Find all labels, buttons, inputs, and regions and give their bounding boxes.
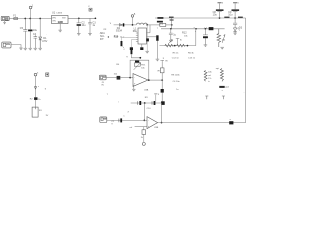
net flag box mid left <box>46 73 49 76</box>
ground under C11 <box>169 40 173 42</box>
wire feedback loop <box>130 60 149 80</box>
wire J4 to -input <box>107 119 147 121</box>
wire power flag stem <box>30 9 32 19</box>
svg-text:R5 1k: R5 1k <box>173 52 180 54</box>
wire vertical x162.2 <box>161 62 163 103</box>
resistor R3 box <box>160 23 166 26</box>
capacitor C2 polarized <box>77 18 81 33</box>
wire riser x195.8 to rail3 <box>195 29 197 46</box>
svg-text:1%: 1% <box>208 78 211 80</box>
pot arrow over R5 <box>168 40 172 44</box>
svg-text:C13 1n: C13 1n <box>188 58 196 60</box>
net flag VSW <box>89 8 92 11</box>
capacitor bold blob on x162.2 <box>161 89 164 93</box>
svg-text:R12: R12 <box>182 31 187 34</box>
svg-text:ref: ref <box>130 126 133 129</box>
net label bold on output <box>229 121 233 124</box>
pot arrow on R13 <box>222 35 225 43</box>
node junction x162.2 <box>161 79 163 81</box>
net flag top x162.2 <box>160 60 164 61</box>
svg-text:VIN: VIN <box>52 17 56 19</box>
resistor R4 bold <box>117 76 121 80</box>
node junction x30.25 <box>29 18 31 20</box>
node junction x147.2 <box>146 24 148 26</box>
svg-text:10u: 10u <box>81 24 86 27</box>
wire main input rail y18.5 <box>18 18 52 20</box>
wire R box to riser <box>166 24 172 26</box>
pad bold left <box>130 47 133 50</box>
capacitor C3 <box>88 18 92 33</box>
connector J3 <box>99 75 106 80</box>
testpoint circle <box>142 142 145 145</box>
capacitor C11 below rail3 <box>169 29 173 40</box>
net flag a bottom right <box>205 96 208 99</box>
svg-text:C4 10n: C4 10n <box>173 81 181 83</box>
node junction x148.8 output <box>148 79 150 81</box>
ground under C14 <box>204 45 208 47</box>
net label bold on rail right b <box>238 17 243 18</box>
wire bias x143.8 down <box>143 127 145 143</box>
LED D3 <box>233 28 236 33</box>
wire B1 stem <box>35 76 37 97</box>
rail3 y28.8 <box>161 28 225 30</box>
resistor R6 zigzag <box>177 44 186 47</box>
wire J2 to ground <box>11 45 21 48</box>
power port circle B1 <box>34 73 37 76</box>
capacitor C4 <box>34 35 38 48</box>
node junction U3B out <box>161 122 163 124</box>
arrow on stem <box>34 87 37 90</box>
power flag +VIN <box>29 6 32 9</box>
svg-text:SDA: SDA <box>100 32 105 35</box>
resistor R13 vertical zigzag <box>217 29 221 47</box>
capacitor C15 bar <box>121 41 123 46</box>
wire R4 to opamp <box>120 77 133 79</box>
node junction x171.7 <box>171 24 173 26</box>
net label bold VOUT <box>157 17 163 19</box>
svg-text:SS34: SS34 <box>116 29 123 32</box>
diode D2 <box>119 24 122 27</box>
ground under C5 <box>24 48 28 50</box>
node junction end x95.4 <box>95 17 97 19</box>
svg-text:GND: GND <box>58 22 63 24</box>
svg-text:10u: 10u <box>213 14 218 17</box>
wire U2 bottom pin <box>141 44 143 47</box>
ground under D3 <box>233 33 237 35</box>
resistor R15 vertical zigzag <box>220 69 223 82</box>
capacitor C5 <box>23 19 27 49</box>
power bar above C9 <box>233 2 237 4</box>
capacitor bold on x147.2 <box>146 38 149 41</box>
capacitor C9 polarized <box>233 3 238 18</box>
svg-text:U3A: U3A <box>144 88 149 91</box>
U2 left pin stubs <box>136 33 138 42</box>
capacitor C17 series <box>137 101 139 105</box>
net flag b bottom right <box>222 96 225 99</box>
ground under U1 <box>58 30 62 32</box>
connector J2 <box>2 42 11 48</box>
wire U1 GND pin <box>59 24 61 30</box>
node junction x196 rail3 <box>195 28 197 30</box>
node junction x132.5 <box>132 24 134 26</box>
power flag +5V circle <box>131 15 134 18</box>
svg-text:opt: opt <box>216 67 219 70</box>
wire vertical x150 <box>149 25 151 33</box>
ground under C4 <box>34 48 38 50</box>
capacitor C16 bar <box>131 49 133 54</box>
wire x144.3 down to -input <box>143 103 145 120</box>
inductor L1 <box>136 23 147 25</box>
node junction x174.8 <box>174 45 176 47</box>
svg-text:LM25: LM25 <box>57 13 63 15</box>
thermistor bold on stem <box>34 97 37 100</box>
net label bold on rail right a <box>224 17 229 18</box>
wire y103 <box>131 102 162 104</box>
wire U3A output <box>148 79 162 81</box>
wire J1 pin2 stub <box>4 21 6 23</box>
capacitor C8 polarized <box>217 3 222 18</box>
node junction x40.2 <box>39 18 41 20</box>
op-amp U3B <box>147 117 158 129</box>
wire diode rail y24.9 <box>114 24 137 26</box>
wire C16 to gnd dot <box>131 54 140 58</box>
power flag stub above y103 <box>155 95 157 101</box>
op-amp U3A <box>133 74 148 87</box>
net label bold second <box>169 17 174 18</box>
wire riser rail1 to rail3 <box>171 18 173 29</box>
node junction x205.4 rail3 <box>205 28 207 30</box>
ground bar below text block <box>219 86 224 88</box>
text under C15 <box>123 46 125 48</box>
node dot x108.4 <box>108 36 109 37</box>
wire right edge vertical <box>245 18 247 123</box>
zener diode D1 <box>39 19 41 37</box>
ground under U3A <box>132 89 135 91</box>
resistor R5 zigzag <box>165 44 174 47</box>
connector J1 <box>1 16 9 20</box>
ground under D1 <box>38 48 42 50</box>
ground under C6 <box>28 48 32 50</box>
node junction x235.1 rail1 <box>234 17 236 19</box>
node junction x170.8 rail3 <box>170 28 172 30</box>
connector J4 <box>100 117 107 123</box>
ground under C3 <box>88 34 92 36</box>
wire xtal to ground <box>156 41 158 59</box>
wire J1 to F1 <box>9 18 14 20</box>
svg-text:R8 100k: R8 100k <box>171 75 180 77</box>
capacitor C19 series <box>118 119 120 123</box>
capacitor C10 below rail <box>233 18 237 28</box>
ground under R13 <box>220 47 224 49</box>
ground under J1 <box>3 22 6 24</box>
sensor B1 box <box>32 107 38 117</box>
wire inductor to R box <box>147 24 159 26</box>
ferrite bead FB1 bold on rail3 <box>209 27 214 30</box>
wire C16 to pin <box>131 40 136 49</box>
svg-text:INT: INT <box>100 39 104 41</box>
svg-text:R6 3k: R6 3k <box>188 52 195 54</box>
node junction x130.1 <box>129 77 131 79</box>
wire U2 right pin1 <box>147 32 151 34</box>
wire +input y126.6 <box>135 126 147 128</box>
node junction x144.3 y120.4 <box>143 120 145 122</box>
power bar above C8 <box>218 2 222 4</box>
wire U1 output <box>68 17 95 19</box>
capacitor C18 series <box>151 101 153 105</box>
svg-text:U3B: U3B <box>154 127 159 129</box>
wire +input to ground <box>133 85 135 89</box>
node dot x140.3 <box>139 57 141 59</box>
fuse F1 <box>14 18 18 20</box>
mcu U2 box <box>138 28 147 44</box>
node junction x219.5 rail1 <box>219 17 221 19</box>
svg-text:R10: R10 <box>114 36 119 39</box>
crystal Y1 bold bar <box>156 35 158 41</box>
svg-text:C12 1n: C12 1n <box>172 58 180 60</box>
wire vertical x147.2 bypass <box>146 25 148 51</box>
node junction x144.7 y103 <box>144 102 146 104</box>
net label bold +5V <box>157 21 163 23</box>
wire U3B output long <box>158 122 246 124</box>
regulator U1 <box>52 16 69 24</box>
wire U2 right pin2 <box>147 36 157 38</box>
speck dot <box>45 88 46 89</box>
wire feedback x161.5 down <box>161 103 163 123</box>
wire to sensor box <box>35 100 37 107</box>
ground under xtal <box>156 59 160 61</box>
wire +5V stem <box>132 17 134 25</box>
svg-text:SCL: SCL <box>100 36 105 38</box>
net flag stub x177.5 <box>176 38 179 45</box>
node junction x78.8 <box>78 17 80 19</box>
pad bold under U2 <box>140 47 143 50</box>
capacitor C7 in riser <box>170 19 174 20</box>
node junction x187.4 <box>187 45 189 47</box>
ground J2 <box>19 48 23 50</box>
wire J3 to R4 <box>106 77 117 79</box>
wire C15 to pin <box>121 37 135 41</box>
node junction x25.3 <box>24 18 26 20</box>
svg-text:10u: 10u <box>228 14 233 17</box>
svg-text:10u: 10u <box>33 29 38 32</box>
wire divider row y45.6 <box>160 45 196 47</box>
capacitor C14 polarized below rail3 <box>203 29 208 45</box>
resistor R14 vertical zigzag <box>204 71 207 82</box>
ground under C2 <box>77 34 81 36</box>
resistor R7 box on x162.2 <box>160 68 164 73</box>
capacitor C6 polarized <box>29 19 31 49</box>
top rail y18 <box>155 17 246 19</box>
svg-text:EN: EN <box>53 21 56 23</box>
ground under x147.2 <box>145 51 149 53</box>
resistor R11 box <box>142 130 146 135</box>
svg-text:5V: 5V <box>44 40 47 43</box>
trimmer RV1 <box>135 61 139 63</box>
junction blob x161.5 y103 <box>161 101 165 105</box>
